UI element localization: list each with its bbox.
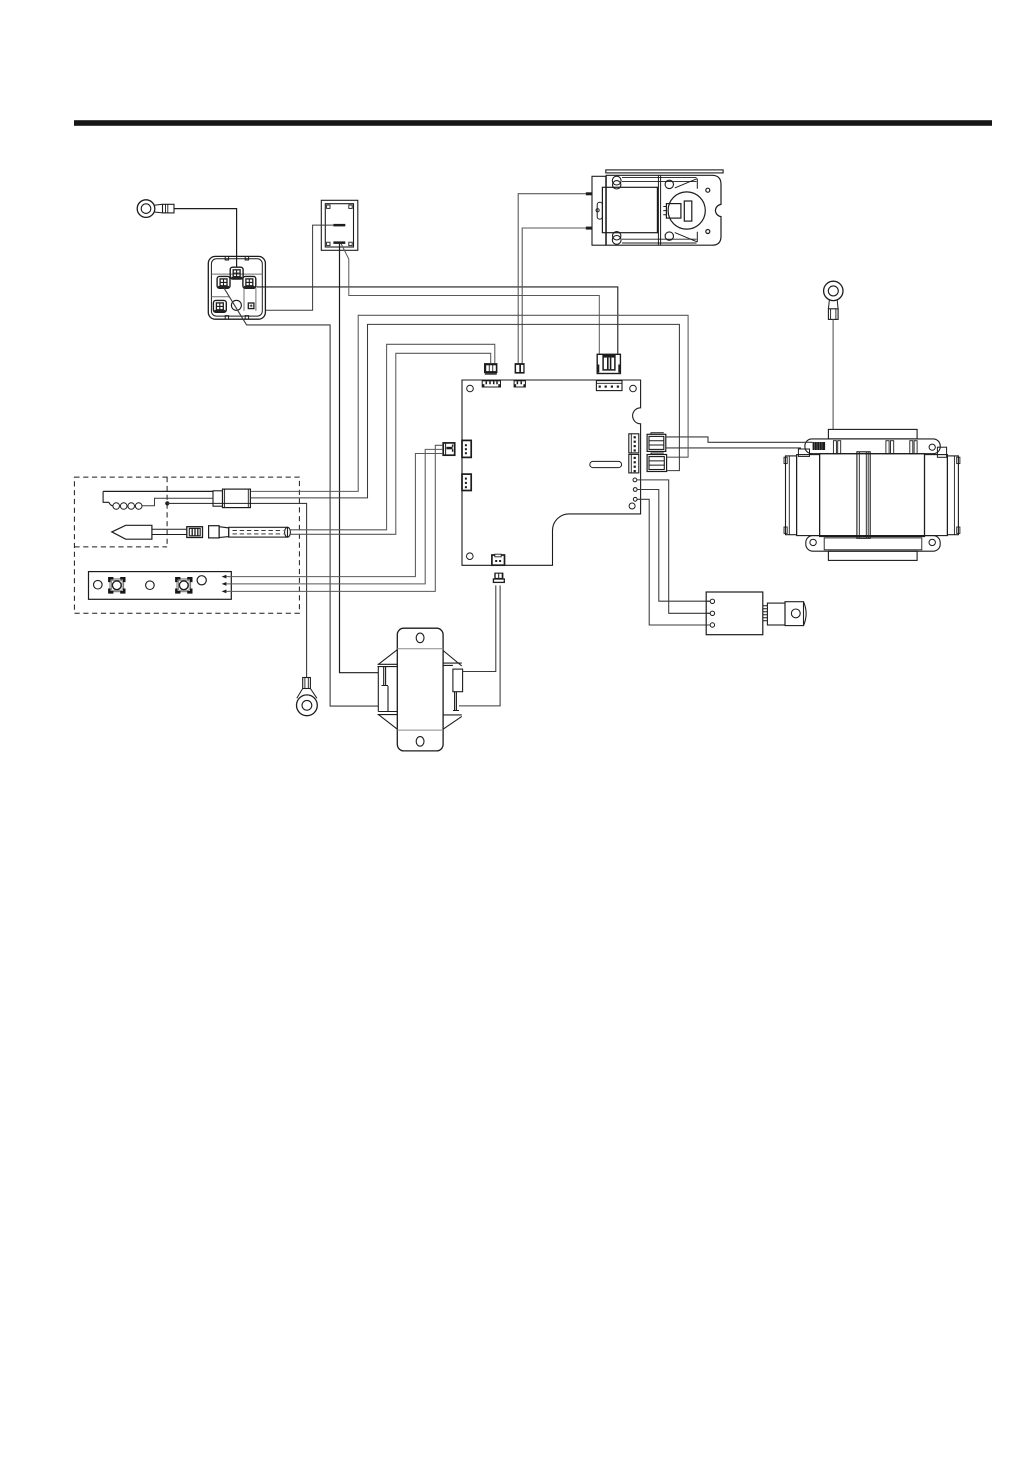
- wire relay K1 left terminal to igniter B1 (lower left pin): [224, 288, 379, 706]
- wire TP3 to regulator VR1 bottom: [637, 499, 710, 625]
- connector P7 (PCB right lower): [647, 453, 667, 472]
- wire pump M1 lower lead to connector P2: [522, 227, 592, 364]
- PCB test point TP2: [633, 488, 637, 492]
- wire relay K1 right terminal to connector P3: [257, 287, 618, 354]
- connector P5 (PCB bottom): [493, 573, 504, 583]
- wire P5 left pin to igniter B1 upper right: [463, 585, 496, 671]
- relay K1: [208, 256, 265, 319]
- PCB test point TP1: [633, 478, 637, 482]
- wire HT lead upper run to connector P1: [290, 344, 494, 530]
- PCB header footprint J3: [596, 381, 622, 391]
- spark plug terminal nut: [187, 527, 203, 538]
- wire P6 to transformer T1 primary upper: [666, 437, 813, 442]
- PCB edge connector J6 (right upper): [629, 434, 639, 453]
- PCB edge connector J5 (left lower): [462, 474, 471, 490]
- control panel PL1: [89, 572, 232, 600]
- wire switch S1 upper terminal to relay K1 aux terminal: [265, 225, 333, 310]
- ignition coil L1: [103, 491, 213, 509]
- wire E1 to relay K1 top terminal: [174, 209, 237, 268]
- panel lead arrow 1: [222, 575, 227, 579]
- connector P2: [515, 363, 525, 374]
- junction dot (coil ground at boundary): [165, 501, 169, 505]
- noise filter FL1: [213, 489, 250, 508]
- igniter B1 body: [378, 628, 463, 751]
- wire TP2 to regulator VR1 top: [637, 490, 710, 602]
- connector P3: [597, 354, 620, 373]
- PCB header footprint J1: [482, 381, 500, 387]
- wire TP1 to regulator VR1 middle: [637, 480, 711, 613]
- ring terminal E2: [824, 281, 843, 319]
- wire panel lead 3 to connector P4: [226, 445, 442, 591]
- ring terminal E3: [297, 678, 318, 716]
- PCB slot: [590, 461, 622, 467]
- wire pump M1 upper lead to connector P2: [518, 192, 592, 363]
- wire E2 to transformer T1: [832, 319, 834, 429]
- wire P6 to transformer T1 primary lower: [666, 447, 801, 449]
- connector P4 (PCB left): [443, 443, 455, 455]
- wire spark plug to cap: [152, 529, 187, 534]
- ignition sub-boundary dashed lines: [74, 477, 167, 547]
- connector P6 (PCB right upper): [647, 433, 666, 452]
- panel lead arrow 2: [222, 582, 227, 586]
- PCB header footprint J2: [514, 381, 525, 387]
- PCB mounting holes: [467, 385, 637, 559]
- transformer T1: [784, 429, 960, 560]
- header rule: [74, 120, 992, 126]
- PCB test point TP3: [633, 497, 637, 501]
- fuel pump M1: [592, 170, 723, 245]
- ring terminal E1: [137, 200, 174, 218]
- wire panel lead 2 to connector P4: [226, 449, 442, 584]
- wire junction to ring terminal E3: [167, 503, 306, 677]
- PCB edge connector J7 (right lower): [629, 454, 639, 473]
- PCB footprint J8 (bottom): [492, 554, 505, 565]
- switch S1: [321, 200, 358, 250]
- spark plug cap: [209, 526, 229, 538]
- spark plug X1: [112, 525, 152, 539]
- regulator VR1: [706, 592, 806, 635]
- engine boundary dashed box: [74, 477, 299, 613]
- wire coil cable upper run to connector P7: [250, 315, 688, 491]
- wire HT lead lower run to connector P1: [290, 353, 490, 534]
- wire panel lead 1 to connector P4: [226, 454, 442, 577]
- panel lead arrow 3: [222, 590, 227, 594]
- wire switch S1 lower terminal to igniter B1 (upper left pin): [340, 244, 379, 673]
- PCB edge connector J4 (left upper): [462, 440, 471, 457]
- wire P5 right pin to igniter B1 lower right: [459, 585, 500, 706]
- wire coil cable lower run to connector P7: [250, 324, 679, 498]
- wire switch S1 lower terminal to connector P3: [341, 244, 599, 354]
- PCB assembly A1 outline: [462, 380, 641, 565]
- connector P1: [484, 363, 497, 375]
- HT lead boot: [229, 527, 291, 537]
